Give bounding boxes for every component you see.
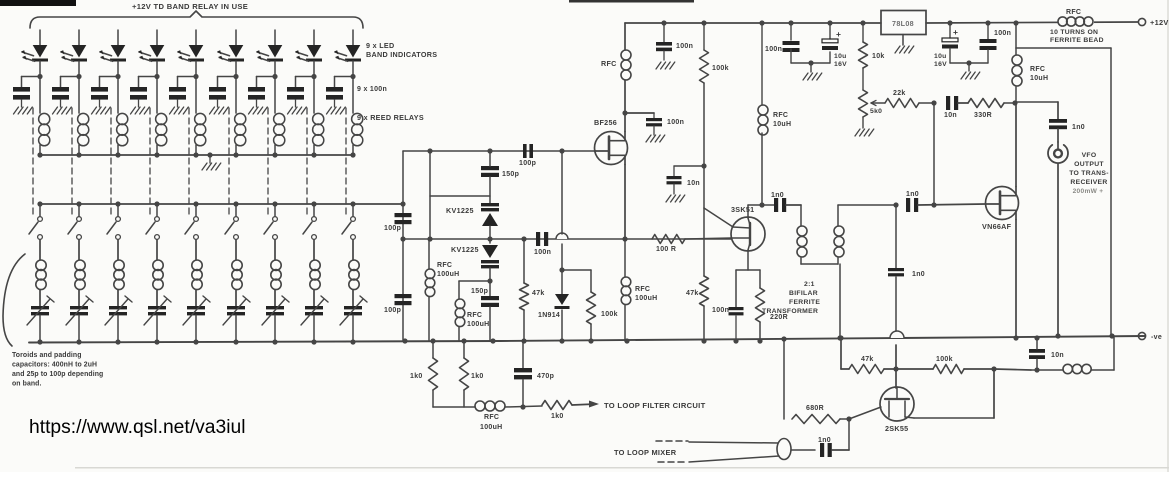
svg-text:FERRITE: FERRITE bbox=[789, 299, 820, 306]
svg-text:470p: 470p bbox=[537, 373, 554, 380]
svg-text:9 x REED RELAYS: 9 x REED RELAYS bbox=[357, 113, 424, 122]
svg-text:100k: 100k bbox=[712, 65, 729, 72]
svg-text:200mW +: 200mW + bbox=[1073, 188, 1104, 195]
svg-text:16V: 16V bbox=[834, 61, 847, 68]
svg-text:VN66AF: VN66AF bbox=[982, 222, 1012, 231]
svg-text:100n: 100n bbox=[676, 43, 693, 50]
svg-text:10u: 10u bbox=[834, 53, 847, 60]
svg-text:TRANSFORMER: TRANSFORMER bbox=[762, 308, 818, 315]
svg-text:1k0: 1k0 bbox=[551, 413, 564, 420]
svg-text:KV1225: KV1225 bbox=[451, 245, 479, 254]
svg-text:10n: 10n bbox=[687, 180, 700, 187]
svg-text:+12V TD BAND RELAY IN USE: +12V TD BAND RELAY IN USE bbox=[132, 2, 248, 11]
svg-text:10 TURNS ON: 10 TURNS ON bbox=[1050, 29, 1098, 36]
svg-text:150p: 150p bbox=[471, 288, 488, 295]
svg-text:100n: 100n bbox=[534, 249, 551, 256]
svg-text:and 25p to 100p depending: and 25p to 100p depending bbox=[12, 371, 103, 378]
svg-text:RFC: RFC bbox=[1066, 9, 1081, 16]
svg-text:+: + bbox=[836, 29, 841, 39]
svg-text:RFC: RFC bbox=[601, 59, 617, 68]
svg-text:1k0: 1k0 bbox=[471, 373, 484, 380]
svg-text:VFO: VFO bbox=[1082, 152, 1097, 159]
svg-text:RFC: RFC bbox=[484, 414, 499, 421]
svg-text:KV1225: KV1225 bbox=[446, 206, 474, 215]
svg-text:5k0: 5k0 bbox=[870, 108, 882, 115]
svg-text:capacitors: 400nH to 2uH: capacitors: 400nH to 2uH bbox=[12, 362, 97, 369]
svg-text:1n0: 1n0 bbox=[912, 271, 925, 278]
svg-text:2:1: 2:1 bbox=[804, 281, 815, 288]
svg-text:2SK55: 2SK55 bbox=[885, 424, 908, 433]
svg-text:3SK51: 3SK51 bbox=[731, 205, 754, 214]
svg-text:RFC: RFC bbox=[635, 286, 650, 293]
svg-text:RFC: RFC bbox=[1030, 66, 1045, 73]
svg-text:9 x LED: 9 x LED bbox=[366, 41, 394, 50]
svg-text:Toroids and padding: Toroids and padding bbox=[12, 352, 82, 359]
svg-text:10n: 10n bbox=[944, 112, 957, 119]
svg-text:RFC: RFC bbox=[437, 262, 452, 269]
svg-text:100n: 100n bbox=[667, 119, 684, 126]
svg-text:TO LOOP MIXER: TO LOOP MIXER bbox=[614, 448, 677, 457]
svg-text:47k: 47k bbox=[686, 290, 699, 297]
svg-text:1n0: 1n0 bbox=[1072, 124, 1085, 131]
svg-text:100uH: 100uH bbox=[635, 295, 658, 302]
svg-text:10uH: 10uH bbox=[1030, 75, 1048, 82]
svg-text:680R: 680R bbox=[806, 405, 824, 412]
svg-text:RFC: RFC bbox=[467, 312, 482, 319]
svg-text:RFC: RFC bbox=[773, 112, 788, 119]
svg-text:+12V: +12V bbox=[1150, 18, 1169, 27]
svg-text:100n: 100n bbox=[712, 307, 729, 314]
svg-text:47k: 47k bbox=[532, 290, 545, 297]
svg-text:-ve: -ve bbox=[1151, 334, 1162, 341]
svg-text:10uH: 10uH bbox=[773, 121, 791, 128]
svg-text:10n: 10n bbox=[1051, 352, 1064, 359]
svg-text:RECEIVER: RECEIVER bbox=[1070, 179, 1107, 186]
svg-text:100n: 100n bbox=[994, 30, 1011, 37]
svg-text:10u: 10u bbox=[934, 53, 947, 60]
svg-text:100uH: 100uH bbox=[480, 424, 503, 431]
svg-text:BF256: BF256 bbox=[594, 118, 617, 127]
svg-text:22k: 22k bbox=[893, 90, 906, 97]
svg-text:100 R: 100 R bbox=[656, 246, 676, 253]
svg-text:FERRITE BEAD: FERRITE BEAD bbox=[1050, 37, 1104, 44]
svg-text:BAND INDICATORS: BAND INDICATORS bbox=[366, 50, 437, 59]
svg-text:BIFILAR: BIFILAR bbox=[789, 290, 818, 297]
svg-text:9 x 100n: 9 x 100n bbox=[357, 86, 387, 93]
svg-text:100p: 100p bbox=[384, 225, 401, 232]
svg-text:100n: 100n bbox=[765, 46, 782, 53]
svg-text:1N914: 1N914 bbox=[538, 312, 560, 319]
svg-text:on band.: on band. bbox=[12, 381, 42, 388]
svg-text:100p: 100p bbox=[519, 160, 536, 167]
svg-text:100p: 100p bbox=[384, 307, 401, 314]
svg-text:https://www.qsl.net/va3iul: https://www.qsl.net/va3iul bbox=[29, 417, 245, 438]
svg-text:1k0: 1k0 bbox=[410, 373, 423, 380]
svg-text:330R: 330R bbox=[974, 112, 992, 119]
svg-text:+: + bbox=[953, 27, 958, 37]
svg-text:OUTPUT: OUTPUT bbox=[1074, 161, 1104, 168]
svg-text:1n0: 1n0 bbox=[771, 192, 784, 199]
svg-text:100uH: 100uH bbox=[437, 271, 460, 278]
svg-text:100uH: 100uH bbox=[467, 321, 490, 328]
svg-text:TO TRANS-: TO TRANS- bbox=[1069, 170, 1109, 177]
svg-text:TO LOOP FILTER CIRCUIT: TO LOOP FILTER CIRCUIT bbox=[604, 401, 706, 410]
svg-text:100k: 100k bbox=[601, 311, 618, 318]
svg-text:150p: 150p bbox=[502, 171, 519, 178]
svg-text:78L08: 78L08 bbox=[892, 19, 914, 28]
svg-text:100k: 100k bbox=[936, 356, 953, 363]
svg-text:10k: 10k bbox=[872, 53, 885, 60]
svg-text:1n0: 1n0 bbox=[906, 191, 919, 198]
svg-text:220R: 220R bbox=[770, 314, 788, 321]
svg-text:16V: 16V bbox=[934, 61, 947, 68]
svg-text:47k: 47k bbox=[861, 356, 874, 363]
svg-text:1n0: 1n0 bbox=[818, 437, 831, 444]
